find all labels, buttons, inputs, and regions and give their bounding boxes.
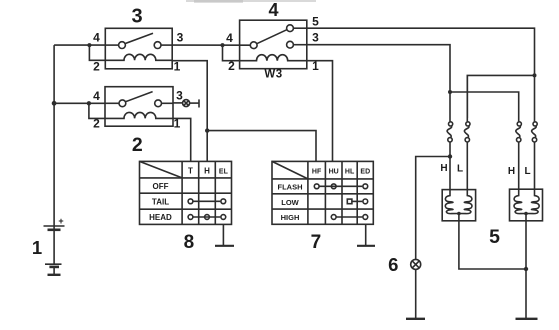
svg-text:2: 2 [93, 60, 100, 74]
wire right lamp L drop [534, 75, 536, 118]
wire relay2 pin4 to left rail [54, 102, 105, 104]
junction relay4 pin2 tap [221, 43, 225, 47]
relay 3 [105, 28, 172, 69]
connector on right lamp L wire [532, 118, 538, 189]
table 8 HEAD row contacts [188, 215, 226, 220]
junction left rail at relay2 [52, 101, 57, 106]
wire relay2 pin2 loop [89, 103, 105, 118]
switch table 8 [140, 161, 232, 224]
svg-text:7: 7 [311, 232, 322, 253]
wire left rail vertical to battery [53, 45, 55, 230]
relay 4 [240, 20, 307, 68]
svg-text:1: 1 [174, 60, 181, 74]
wire relay3 pin3 to relay4 pin4 [172, 44, 250, 46]
wire relay3 pin2 loop [89, 45, 105, 60]
svg-text:FLASH: FLASH [278, 183, 303, 192]
wire relay4 pin3 to left lamp H [307, 45, 450, 118]
svg-text:5: 5 [489, 226, 500, 248]
junction node at 207,130 [205, 128, 209, 132]
table 7 HIGH row contacts [331, 215, 367, 220]
svg-text:4: 4 [93, 31, 100, 45]
table 7 LOW row contacts [347, 199, 367, 204]
svg-text:HIGH: HIGH [281, 213, 300, 222]
svg-text:EL: EL [219, 169, 229, 176]
svg-text:3: 3 [131, 6, 142, 28]
relay 2 [105, 87, 173, 127]
table 8 TAIL row contacts [188, 199, 226, 204]
svg-text:HL: HL [345, 169, 355, 176]
junction H rail split [448, 90, 452, 94]
svg-text:LOW: LOW [281, 198, 299, 207]
svg-text:OFF: OFF [153, 182, 169, 191]
svg-text:L: L [457, 164, 463, 175]
svg-text:ED: ED [360, 169, 370, 176]
svg-text:HU: HU [329, 169, 339, 176]
pilot lamp at relay2 pin3 [183, 99, 199, 107]
wire relay4 pin5 to right lamp L rail [307, 28, 535, 75]
wire left lamp bottom to right [459, 221, 526, 269]
indicator lamp 6 [411, 259, 421, 269]
wire branch to left lamp L [467, 75, 534, 118]
svg-text:HF: HF [312, 169, 322, 176]
junction relay3 pin2 tap [87, 43, 91, 47]
svg-text:HEAD: HEAD [149, 213, 172, 222]
headlamp left (5) [442, 190, 475, 221]
table 7 FLASH row contacts [314, 184, 367, 189]
svg-text:4: 4 [93, 89, 100, 103]
svg-text:T: T [188, 167, 193, 176]
connector on left lamp H wire [447, 118, 453, 157]
headlamp right (5) [510, 189, 543, 221]
svg-text:W3: W3 [264, 69, 282, 81]
svg-text:8: 8 [184, 232, 195, 253]
svg-text:TAIL: TAIL [152, 198, 169, 207]
svg-text:H: H [440, 163, 447, 174]
wire branch to table7 HF [207, 131, 316, 162]
ground at lamp 6 [406, 318, 425, 320]
ground at lamps [516, 318, 538, 320]
svg-text:6: 6 [388, 254, 398, 275]
junction relay2 pin2 tap [87, 101, 91, 105]
svg-text:3: 3 [312, 31, 319, 45]
svg-text:4: 4 [226, 31, 233, 45]
connector on left lamp L wire [464, 75, 470, 189]
wire relay4 pin1 to table7 HU [307, 61, 333, 162]
battery 1 [44, 216, 65, 264]
svg-text:3: 3 [176, 89, 183, 103]
svg-text:H: H [204, 167, 210, 176]
svg-text:2: 2 [132, 134, 143, 156]
wire H into left lamp [449, 157, 451, 190]
cropped text remnant top [186, 0, 316, 2]
switch table 7 [272, 161, 373, 224]
ground at table 7 ED [357, 224, 375, 246]
svg-text:L: L [524, 166, 530, 177]
ground at battery [48, 274, 61, 276]
junction lamp commons [524, 267, 528, 271]
svg-text:+: + [58, 216, 63, 226]
junction L rail split [533, 73, 537, 77]
wire relay4 pin2 loop [223, 45, 240, 61]
wire lamp6 down to ground [415, 269, 417, 318]
wire branch to right lamp H [450, 92, 519, 118]
junction lamp6 tap on H wire [448, 154, 452, 158]
wire relay2 pin1 to table8 T [173, 118, 191, 161]
connector on right lamp H wire [516, 118, 522, 189]
wire relay3 pin4 to left rail [54, 44, 105, 46]
wire relay3 pin1 down [172, 61, 207, 162]
svg-text:5: 5 [312, 15, 319, 29]
ground at table 8 EL [215, 224, 234, 245]
battery lower cell plates [45, 264, 62, 274]
wire right lamp bottom to ground [525, 221, 527, 319]
svg-text:4: 4 [268, 0, 278, 20]
wire relay2 pin3 to pilot lamp [173, 102, 182, 104]
svg-text:H: H [508, 166, 515, 177]
wire lamp6 up to H net [416, 157, 450, 260]
svg-text:1: 1 [32, 237, 42, 258]
svg-text:2: 2 [228, 59, 235, 73]
svg-text:3: 3 [177, 31, 184, 45]
